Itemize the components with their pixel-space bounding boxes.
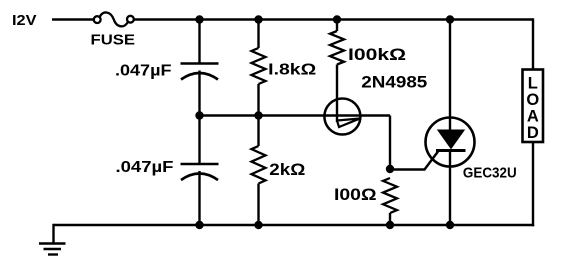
wire: [198, 171, 200, 225]
junction dot bottom-2k: [254, 221, 262, 229]
capacitor C2 .047uF: [181, 164, 219, 180]
svg-text:GEC32U: GEC32U: [463, 165, 517, 182]
wire: [389, 116, 391, 169]
wire: [198, 71, 200, 116]
junction dot mid-cap: [195, 111, 203, 119]
wire: [198, 116, 200, 165]
wire: [257, 20, 259, 49]
ground: [39, 244, 66, 255]
wire: [449, 20, 451, 132]
junction dot top-100k: [333, 15, 341, 23]
svg-text:FUSE: FUSE: [91, 31, 136, 48]
svg-text:A: A: [527, 108, 539, 126]
svg-text:I00kΩ: I00kΩ: [348, 46, 406, 64]
svg-text:.047µF: .047µF: [116, 159, 174, 176]
wire: [532, 18, 534, 70]
junction dot top-1.8k: [254, 15, 262, 23]
svg-text:I2V: I2V: [12, 13, 37, 29]
resistor R2 2k: [252, 146, 266, 183]
svg-text:2N4985: 2N4985: [361, 73, 427, 92]
svg-text:2kΩ: 2kΩ: [269, 161, 305, 179]
wire: [52, 18, 94, 20]
wire: [449, 151, 451, 226]
junction dot bottom-cap: [195, 221, 203, 229]
wire: [532, 141, 534, 226]
junction dot top-scr: [446, 15, 454, 23]
svg-text:I00Ω: I00Ω: [334, 186, 377, 204]
wire bottom rail: [54, 224, 535, 226]
svg-text:I.8kΩ: I.8kΩ: [268, 61, 316, 78]
junction dot bottom-100ohm: [386, 221, 394, 229]
svg-text:O: O: [526, 91, 539, 109]
wire: [257, 84, 259, 146]
wire mid rail: [200, 114, 391, 116]
label LOAD: [526, 75, 539, 143]
fuse F1: [94, 12, 134, 26]
junction dot top-cap: [195, 15, 203, 23]
svg-text:D: D: [527, 124, 539, 142]
resistor R1 1.8k: [252, 48, 266, 84]
load block: [523, 70, 544, 143]
trigger device U1 2N4985: [324, 99, 360, 135]
wire: [134, 18, 533, 20]
wire: [52, 224, 54, 243]
resistor R3 100k: [330, 31, 344, 64]
wire gate: [390, 152, 438, 170]
capacitor C1 .047uF: [181, 64, 219, 80]
wire: [389, 213, 391, 225]
wire: [336, 65, 338, 123]
junction dot mid-res: [254, 111, 262, 119]
junction dot bottom-scr: [446, 221, 454, 229]
svg-text:.047µF: .047µF: [115, 63, 172, 80]
wire: [198, 20, 200, 64]
resistor R4 100ohm: [383, 178, 397, 213]
thyristor Q1 GEC32U: [426, 118, 475, 167]
wire: [257, 184, 259, 226]
wire: [336, 20, 338, 32]
junction dot gate node: [386, 165, 394, 173]
svg-text:L: L: [528, 75, 538, 93]
